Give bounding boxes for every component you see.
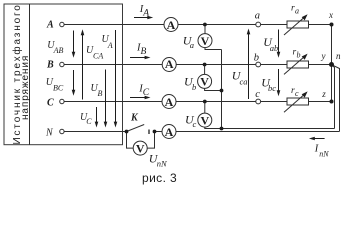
wire neutral ammeter to right rail bbox=[176, 131, 339, 133]
wire voltmeter UnN left leg bbox=[127, 132, 134, 149]
svg-text:c: c bbox=[295, 89, 299, 98]
junction dot bus Ub bbox=[220, 89, 224, 93]
switch K lever bbox=[127, 125, 145, 132]
resistor ra wiper arrow bbox=[284, 14, 308, 35]
wire voltmeter Uc bottom link bbox=[205, 127, 222, 129]
voltage arrow U_AB bbox=[73, 31, 75, 56]
ammeter IC bbox=[162, 95, 176, 109]
wire voltmeter Ub top stub bbox=[204, 65, 206, 75]
resistor rc body bbox=[287, 98, 309, 105]
node a bbox=[256, 22, 261, 27]
terminal N bbox=[60, 129, 64, 133]
wire voltmeter Ua bottom link bbox=[205, 48, 222, 50]
voltmeter UnN bbox=[133, 141, 147, 155]
svg-text:C: C bbox=[86, 117, 92, 126]
switch K fixed contact bbox=[148, 130, 150, 135]
svg-text:I: I bbox=[314, 144, 319, 155]
svg-text:A: A bbox=[142, 9, 149, 19]
junction dot bus Uc rail bbox=[220, 127, 224, 131]
wire phase C from terminal to ammeter bbox=[64, 101, 162, 103]
voltage arrow U_bc bbox=[278, 69, 280, 94]
wire voltmeter Ua top stub bbox=[204, 25, 206, 34]
svg-text:рис. 3: рис. 3 bbox=[142, 171, 177, 185]
wire neutral switch to ammeter bbox=[155, 131, 163, 133]
resistor rb body bbox=[287, 61, 309, 68]
wire phase C resistor to z bbox=[309, 101, 332, 103]
svg-text:a: a bbox=[295, 7, 299, 16]
svg-text:a: a bbox=[190, 40, 194, 50]
wire voltmeter rail vertical to n bbox=[332, 65, 335, 129]
terminal C bbox=[60, 99, 64, 103]
svg-text:AB: AB bbox=[53, 46, 64, 55]
current arrow I_nN bbox=[311, 138, 325, 140]
svg-text:x: x bbox=[328, 10, 333, 20]
wire phase A node a to resistor bbox=[261, 24, 288, 26]
wire neutral from terminal to switch bbox=[64, 131, 126, 133]
wire x to y vertical bbox=[331, 25, 333, 65]
wire y to z vertical bbox=[331, 65, 333, 102]
resistor rc wiper arrow bbox=[284, 91, 308, 112]
switch right junction dot bbox=[153, 130, 157, 134]
voltmeter Uc bbox=[198, 113, 212, 127]
svg-text:A: A bbox=[165, 125, 174, 139]
wire right rail N vertical bbox=[332, 65, 340, 132]
wire phase B from terminal to ammeter bbox=[64, 64, 162, 66]
current arrow I_B bbox=[130, 57, 148, 59]
svg-text:C: C bbox=[47, 98, 54, 109]
source box bbox=[4, 4, 123, 145]
voltage arrow U_CA bbox=[82, 32, 84, 100]
svg-text:bc: bc bbox=[268, 83, 276, 93]
svg-text:B: B bbox=[98, 89, 103, 98]
node y dot bbox=[329, 62, 334, 67]
svg-text:B: B bbox=[46, 60, 54, 71]
node c bbox=[256, 99, 261, 104]
ammeter IA bbox=[164, 18, 178, 32]
junction dot phase C voltmeter tap bbox=[203, 100, 207, 104]
wire voltmeter Ub bottom link bbox=[205, 88, 222, 90]
voltage arrow U_BC bbox=[73, 70, 75, 94]
current arrow I_A bbox=[134, 17, 151, 19]
wire phase B node b to resistor bbox=[261, 64, 288, 66]
wire phase C ammeter to node c bbox=[176, 101, 256, 103]
svg-text:N: N bbox=[45, 127, 54, 138]
svg-text:A: A bbox=[167, 18, 176, 32]
voltage arrow U_ca bbox=[248, 31, 250, 99]
svg-text:ab: ab bbox=[270, 43, 279, 53]
junction dot phase A voltmeter tap bbox=[203, 23, 207, 27]
svg-text:B: B bbox=[141, 47, 147, 57]
wire voltmeter Uc top stub bbox=[204, 102, 206, 114]
svg-text:nN: nN bbox=[157, 159, 168, 169]
terminal A bbox=[60, 22, 64, 26]
svg-text:V: V bbox=[200, 113, 209, 127]
svg-text:CA: CA bbox=[93, 52, 103, 61]
svg-text:напряжения: напряжения bbox=[20, 55, 31, 120]
svg-text:c: c bbox=[193, 119, 197, 129]
wire phase A from terminal to ammeter bbox=[64, 24, 164, 26]
svg-text:n: n bbox=[336, 51, 341, 61]
wire voltmeter UnN right leg bbox=[147, 132, 154, 149]
wire phase A ammeter to node a bbox=[178, 24, 256, 26]
node b bbox=[256, 62, 261, 67]
svg-text:V: V bbox=[201, 34, 210, 48]
ammeter IB bbox=[162, 58, 176, 72]
svg-text:b: b bbox=[192, 82, 196, 92]
voltage arrow U_A bbox=[115, 30, 117, 125]
wire phase C node c to resistor bbox=[261, 101, 288, 103]
node x dot bbox=[330, 23, 334, 27]
resistor ra body bbox=[287, 21, 309, 28]
svg-text:ca: ca bbox=[240, 77, 248, 87]
source panel divider bbox=[29, 4, 31, 145]
svg-text:C: C bbox=[143, 88, 150, 98]
svg-text:V: V bbox=[200, 75, 209, 89]
switch left junction dot bbox=[125, 130, 129, 134]
voltmeter Ub bbox=[198, 74, 212, 88]
svg-text:K: K bbox=[130, 113, 139, 124]
voltmeter Ua bbox=[198, 34, 212, 48]
wire phase B ammeter to node b bbox=[176, 64, 256, 66]
current arrow I_C bbox=[130, 97, 148, 99]
svg-text:A: A bbox=[165, 95, 174, 109]
svg-text:A: A bbox=[107, 41, 113, 50]
svg-text:A: A bbox=[165, 57, 174, 71]
svg-text:c: c bbox=[255, 89, 260, 100]
resistor rb wiper arrow bbox=[284, 54, 308, 75]
junction dot phase B voltmeter tap bbox=[203, 63, 207, 67]
wire voltmeter bus vertical bbox=[221, 50, 223, 129]
wire voltmeter rail horizontal bbox=[222, 128, 335, 130]
svg-text:V: V bbox=[136, 141, 145, 155]
svg-text:b: b bbox=[297, 51, 301, 60]
svg-text:b: b bbox=[254, 53, 259, 64]
svg-text:A: A bbox=[46, 20, 54, 31]
node z dot bbox=[330, 100, 334, 104]
wire phase B resistor to y bbox=[309, 64, 332, 66]
svg-text:nN: nN bbox=[319, 149, 329, 158]
voltage arrow U_B bbox=[105, 70, 107, 126]
svg-text:z: z bbox=[321, 89, 326, 99]
voltage arrow U_C bbox=[96, 107, 98, 125]
voltage arrow U_ab bbox=[278, 30, 280, 56]
svg-text:BC: BC bbox=[53, 84, 64, 93]
svg-text:a: a bbox=[255, 11, 260, 22]
terminal B bbox=[60, 62, 64, 66]
svg-text:y: y bbox=[321, 51, 326, 61]
wire phase A resistor to x bbox=[309, 24, 332, 26]
ammeter InN bbox=[162, 125, 176, 139]
